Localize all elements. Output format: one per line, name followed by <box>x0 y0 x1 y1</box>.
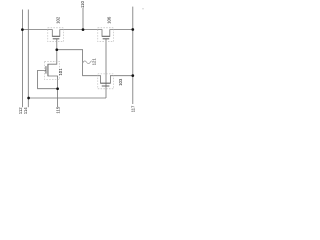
wire rail V1 left supply <box>21 10 23 108</box>
faint artifact dot top right <box>142 8 143 9</box>
transistor Q102 channel dip bottom bold <box>52 35 60 37</box>
transistor Q101 channel side bold <box>47 64 49 76</box>
transistor Q103 gate bar <box>102 85 110 87</box>
svg-text:117: 117 <box>130 105 135 112</box>
transistor Q106 gate bar bold <box>103 38 110 40</box>
junction dot node 110 / top wire <box>82 28 85 31</box>
transistor Q106 channel dip bottom bold <box>102 35 110 37</box>
transistor Q101 gate bar <box>45 66 47 73</box>
junction dot gate101 to drain101 <box>56 87 59 90</box>
transistor Q103 gate bar bold <box>102 85 110 87</box>
wire top horizontal net with source-drain dips of 102 and 106 <box>22 30 132 37</box>
svg-text:103: 103 <box>118 78 123 86</box>
transistor Q101 gate lead wire to drain <box>38 70 58 88</box>
transistor Q106 gate bar <box>103 38 110 40</box>
junction dot right rail / top wire <box>131 28 134 31</box>
dashed box around transistor 106 <box>98 28 114 42</box>
leader squiggle for label 121 <box>83 61 92 64</box>
dashed box around transistor 101 <box>45 61 60 79</box>
dashed box around transistor 103 <box>98 74 114 89</box>
junction dot rail V2 / bottom wire <box>27 97 30 100</box>
wire bottom net rail V2 to gate of 103 <box>29 97 106 99</box>
transistor Q101 gate bar bold <box>45 66 47 73</box>
svg-text:121: 121 <box>91 58 96 66</box>
svg-text:115: 115 <box>56 106 61 113</box>
transistor Q106 gate lead long vertical to 103 <box>105 39 107 98</box>
dashed box around transistor 102 <box>48 28 64 42</box>
transistor Q102 gate bar bold <box>53 38 60 40</box>
svg-text:114: 114 <box>23 107 28 114</box>
svg-text:101: 101 <box>58 68 63 76</box>
svg-text:112: 112 <box>18 107 23 114</box>
junction dot right rail / 103 drain <box>131 74 134 77</box>
wire node 110 vertical drop <box>82 8 84 30</box>
transistor Q102 gate lead <box>56 39 58 50</box>
transistor Q101 channel path <box>48 50 58 107</box>
transistor Q102 gate bar <box>53 38 60 40</box>
transistor Q103 channel dip bottom bold <box>101 82 111 84</box>
junction dot rail V1 / top wire <box>21 28 24 31</box>
svg-text:110: 110 <box>80 1 85 8</box>
svg-text:106: 106 <box>107 16 112 24</box>
wire right vertical rail node 117 <box>132 7 134 104</box>
wire net from node A to transistor 103 with dip of 103 <box>57 50 133 83</box>
svg-text:102: 102 <box>56 16 61 24</box>
junction dot node A gate102/drain101 <box>55 48 58 51</box>
wire rail V2 second supply <box>27 10 29 108</box>
